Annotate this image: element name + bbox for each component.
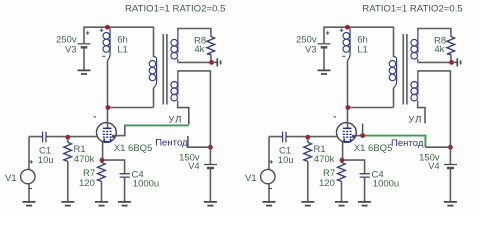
svg-text:Пентод: Пентод	[155, 137, 188, 148]
svg-text:Пентод: Пентод	[391, 138, 424, 149]
svg-text:RATIO1=1 RATIO2=0.5: RATIO1=1 RATIO2=0.5	[125, 3, 225, 14]
svg-text:RATIO1=1 RATIO2=0.5: RATIO1=1 RATIO2=0.5	[362, 3, 462, 14]
